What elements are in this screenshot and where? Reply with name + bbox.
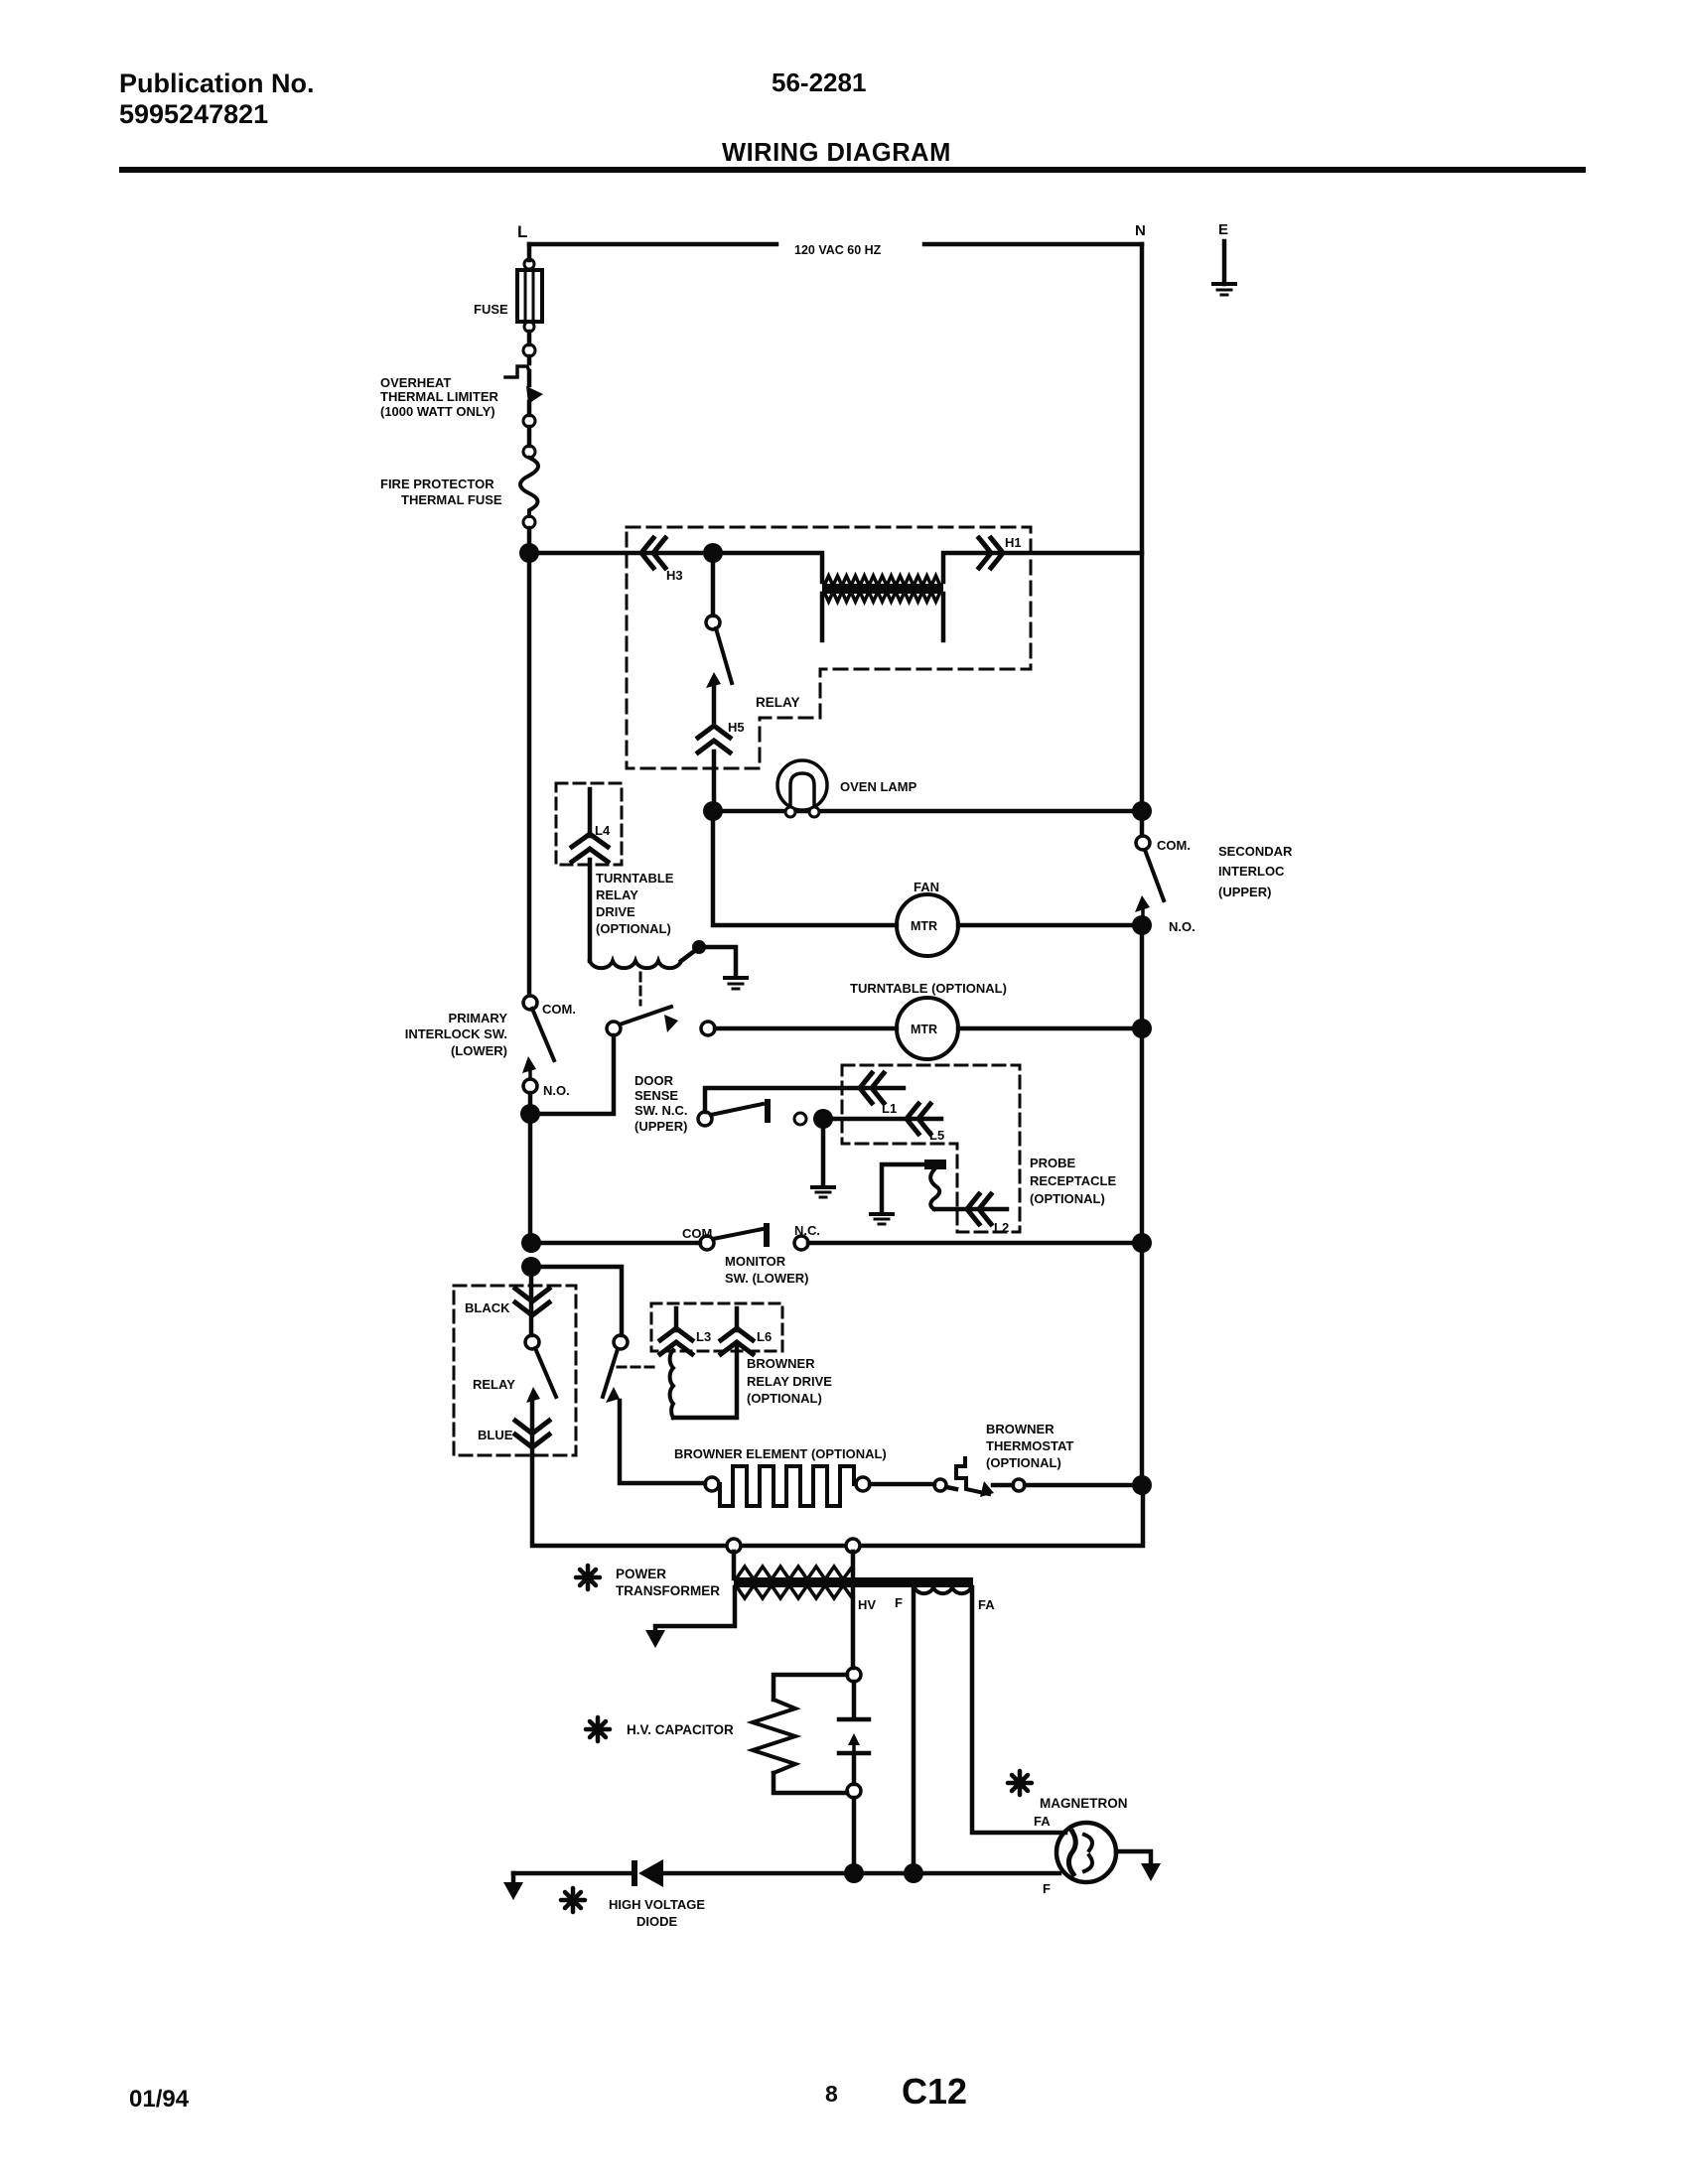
terminal circle	[523, 516, 535, 528]
wire 120VAC label to N	[924, 242, 1142, 247]
svg-text:THERMOSTAT: THERMOSTAT	[986, 1438, 1073, 1453]
contact H5	[698, 726, 730, 738]
svg-text:L3: L3	[696, 1329, 711, 1344]
ground probe	[871, 1212, 893, 1216]
svg-text:N.O.: N.O.	[543, 1083, 570, 1098]
junction dot browner row right	[1132, 1475, 1152, 1495]
svg-text:L6: L6	[757, 1329, 772, 1344]
terminal circle primary right	[846, 1539, 860, 1553]
overheat thermal limiter switch	[527, 356, 532, 363]
ground arrow left	[511, 1873, 516, 1881]
svg-text:FIRE PROTECTOR: FIRE PROTECTOR	[380, 477, 494, 491]
svg-text:FUSE: FUSE	[474, 302, 508, 317]
contact L1	[860, 1073, 872, 1103]
magnetron	[1056, 1823, 1116, 1882]
contact L5	[907, 1104, 918, 1134]
terminal circle	[523, 344, 535, 356]
svg-text:L: L	[517, 222, 527, 241]
star marker H.V. capacitor	[586, 1717, 610, 1741]
fire protector thermal fuse coil	[520, 458, 538, 516]
contact L3	[674, 1308, 679, 1330]
wire element to H1	[943, 553, 1142, 582]
wire coil to L6	[673, 1346, 737, 1418]
svg-text:FAN: FAN	[914, 880, 939, 894]
svg-text:SECONDAR: SECONDAR	[1218, 844, 1293, 859]
wire fuse to limiter	[527, 332, 532, 344]
heating element terminal stubs	[822, 594, 943, 640]
contact L6	[735, 1308, 740, 1330]
wire L to 120VAC label	[529, 242, 776, 247]
svg-text:WIRING DIAGRAM: WIRING DIAGRAM	[722, 139, 951, 167]
svg-text:RELAY: RELAY	[596, 887, 638, 902]
wire turntable switch to motor	[715, 1026, 897, 1031]
svg-text:TURNTABLE: TURNTABLE	[596, 871, 674, 886]
bottom rail to transformer	[532, 1455, 1143, 1546]
svg-text:HV: HV	[858, 1597, 876, 1612]
svg-text:DOOR: DOOR	[634, 1073, 674, 1088]
label BROWNER THERMOSTAT (OPTIONAL)	[986, 1422, 1073, 1470]
svg-text:(1000 WATT ONLY): (1000 WATT ONLY)	[380, 404, 495, 419]
ground turntable relay	[725, 976, 747, 980]
svg-text:RELAY: RELAY	[756, 695, 800, 710]
svg-text:F: F	[895, 1595, 903, 1610]
svg-text:SENSE: SENSE	[634, 1088, 678, 1103]
terminal circle primary left	[727, 1539, 741, 1553]
browner element	[705, 1477, 719, 1491]
wire monitor to N rail	[808, 1241, 1142, 1246]
svg-text:BROWNER ELEMENT (OPTIONAL): BROWNER ELEMENT (OPTIONAL)	[674, 1446, 887, 1461]
wire probe block to ground	[882, 1164, 924, 1211]
svg-text:01/94: 01/94	[129, 2086, 190, 2113]
svg-text:HIGH VOLTAGE: HIGH VOLTAGE	[609, 1897, 705, 1912]
svg-text:F: F	[1043, 1881, 1051, 1896]
ground E earth symbol	[1213, 282, 1235, 286]
junction dot lamp row left	[703, 801, 723, 821]
svg-text:H5: H5	[728, 720, 745, 735]
label POWER TRANSFORMER	[616, 1567, 720, 1598]
junction node relay row	[703, 543, 723, 563]
svg-text:MONITOR: MONITOR	[725, 1254, 786, 1269]
turntable relay drive coil	[590, 961, 681, 968]
turntable switch	[607, 1022, 621, 1035]
svg-text:RELAY DRIVE: RELAY DRIVE	[747, 1374, 832, 1389]
star marker high voltage diode	[561, 1888, 585, 1912]
wire HV down to capacitor node	[851, 1587, 856, 1668]
browner drive switch arm	[614, 1335, 628, 1349]
bleed resistor	[774, 1675, 847, 1700]
svg-text:H1: H1	[1005, 535, 1022, 550]
wire thermostat to N rail	[1025, 1483, 1142, 1488]
junction dot HV rail	[844, 1863, 864, 1883]
svg-text:H3: H3	[666, 568, 683, 583]
svg-text:PRIMARY: PRIMARY	[449, 1011, 508, 1025]
svg-text:INTERLOC: INTERLOC	[1218, 864, 1285, 879]
svg-text:FA: FA	[978, 1597, 995, 1612]
junction dot door sense	[813, 1109, 833, 1129]
label PRIMARY INTERLOCK SW. (LOWER)	[405, 1011, 508, 1058]
svg-text:COM.: COM.	[542, 1002, 576, 1017]
power transformer primary winding	[734, 1552, 853, 1578]
svg-text:MAGNETRON: MAGNETRON	[1040, 1796, 1128, 1811]
publication number heading	[119, 68, 315, 129]
svg-text:SW. N.C.: SW. N.C.	[634, 1103, 687, 1118]
svg-text:OVEN LAMP: OVEN LAMP	[840, 779, 917, 794]
browner relay drive coil	[670, 1350, 673, 1418]
wire L vertical into fuse	[527, 244, 532, 260]
terminal circle	[523, 415, 535, 427]
svg-text:THERMAL LIMITER: THERMAL LIMITER	[380, 389, 499, 404]
svg-text:(OPTIONAL): (OPTIONAL)	[747, 1391, 822, 1406]
svg-text:SW. (LOWER): SW. (LOWER)	[725, 1271, 809, 1286]
contact L4 dashed enclosure	[556, 783, 622, 865]
junction dot F rail	[904, 1863, 923, 1883]
svg-text:MTR: MTR	[911, 919, 937, 933]
secondary interlock switch (upper)	[1136, 836, 1150, 850]
junction dot lamp row right	[1132, 801, 1152, 821]
svg-text:(LOWER): (LOWER)	[451, 1043, 507, 1058]
svg-text:DIODE: DIODE	[636, 1914, 678, 1929]
title rule	[119, 167, 1586, 173]
high voltage diode	[632, 1860, 637, 1886]
svg-text:FA: FA	[1034, 1814, 1051, 1829]
label MONITOR SW. (LOWER)	[725, 1254, 809, 1286]
power transformer filament winding FA	[914, 1587, 971, 1593]
star marker power transformer	[576, 1566, 600, 1589]
junction dot browner feed	[521, 1257, 541, 1277]
door sense switch (upper)	[698, 1112, 712, 1126]
wire junction to ground	[821, 1127, 826, 1184]
svg-text:PROBE: PROBE	[1030, 1156, 1076, 1170]
svg-text:(OPTIONAL): (OPTIONAL)	[596, 921, 671, 936]
svg-text:H.V. CAPACITOR: H.V. CAPACITOR	[627, 1722, 734, 1737]
svg-text:L1: L1	[882, 1101, 897, 1116]
junction dot turntable row right	[1132, 1019, 1152, 1038]
browner relay switch arm (black)	[525, 1335, 539, 1349]
svg-text:C12: C12	[902, 2071, 967, 2112]
svg-text:OVERHEAT: OVERHEAT	[380, 375, 451, 390]
svg-text:56-2281: 56-2281	[772, 68, 866, 97]
browner thermostat	[934, 1479, 946, 1491]
svg-text:BLUE: BLUE	[478, 1428, 513, 1442]
label PROBE RECEPTACLE (OPTIONAL)	[1030, 1156, 1116, 1206]
svg-text:(UPPER): (UPPER)	[634, 1119, 687, 1134]
svg-text:Publication No.: Publication No.	[119, 68, 315, 98]
contact L2	[967, 1194, 979, 1224]
label TURNTABLE RELAY DRIVE (OPTIONAL)	[596, 871, 674, 936]
wire turntable motor to N rail	[958, 1026, 1142, 1031]
svg-text:8: 8	[825, 2081, 838, 2107]
monitor switch blade	[713, 1229, 763, 1239]
label OVERHEAT THERMAL LIMITER (1000 WATT ONLY)	[380, 375, 499, 419]
svg-text:MTR: MTR	[911, 1023, 937, 1036]
star marker magnetron	[1008, 1771, 1032, 1795]
svg-text:DRIVE: DRIVE	[596, 904, 635, 919]
contact BLUE	[530, 1400, 535, 1455]
wire left rail to monitor row	[528, 1114, 533, 1243]
svg-text:INTERLOCK SW.: INTERLOCK SW.	[405, 1026, 507, 1041]
wire element to thermostat	[870, 1482, 934, 1487]
contact BLACK	[529, 1267, 534, 1335]
relay switch arm	[711, 553, 716, 615]
turntable motor MTR	[897, 998, 958, 1059]
wire relay row left	[529, 551, 701, 556]
label FIRE PROTECTOR THERMAL FUSE	[380, 477, 502, 507]
svg-text:POWER: POWER	[616, 1567, 666, 1581]
wire coil to ground	[681, 949, 697, 961]
svg-text:N: N	[1135, 222, 1146, 239]
svg-text:BLACK: BLACK	[465, 1300, 510, 1315]
oven lamp	[777, 760, 827, 810]
monitor switch row	[521, 1233, 541, 1253]
transformer chassis ground	[655, 1587, 735, 1629]
fan motor MTR	[897, 894, 958, 956]
primary interlock switch (lower)	[523, 996, 537, 1010]
svg-text:L4: L4	[595, 823, 611, 838]
wire to L5	[823, 1117, 941, 1122]
svg-text:L5: L5	[929, 1128, 944, 1143]
label HIGH VOLTAGE DIODE	[609, 1897, 705, 1929]
browner relay dashed enclosure	[454, 1286, 576, 1455]
high voltage diode rail	[513, 1871, 1059, 1876]
door sense blade	[711, 1104, 763, 1115]
svg-text:(OPTIONAL): (OPTIONAL)	[986, 1455, 1061, 1470]
svg-text:5995247821: 5995247821	[119, 99, 268, 129]
svg-text:N.O.: N.O.	[1169, 919, 1196, 934]
svg-text:L2: L2	[994, 1220, 1009, 1235]
label SECONDARY INTERLOCK (UPPER)	[1218, 844, 1293, 899]
wire oven lamp row	[713, 809, 1142, 814]
contact H1	[991, 538, 1003, 568]
wire left rail down to primary interlock	[527, 553, 532, 996]
fuse FUSE body	[524, 259, 534, 269]
magnetron anode to ground	[1116, 1851, 1151, 1862]
wire to heating element	[713, 553, 822, 582]
svg-text:BROWNER: BROWNER	[747, 1356, 815, 1371]
heating element (relay box heater)	[822, 584, 943, 594]
mechanical link browner relay (dashed)	[618, 1366, 657, 1369]
svg-text:COM: COM	[682, 1226, 712, 1241]
terminal circle	[523, 446, 535, 458]
H.V. capacitor	[852, 1682, 857, 1717]
wire FA filament to magnetron	[972, 1587, 1065, 1833]
svg-text:(OPTIONAL): (OPTIONAL)	[1030, 1191, 1105, 1206]
relay assembly dashed enclosure	[627, 527, 1031, 768]
probe receptacle dashed enclosure	[842, 1065, 1020, 1232]
probe thermistor squiggle	[930, 1169, 939, 1209]
mechanical link relay coil to switch (dashed)	[639, 973, 642, 1005]
svg-text:COM.: COM.	[1157, 838, 1191, 853]
svg-text:THERMAL FUSE: THERMAL FUSE	[401, 492, 502, 507]
contacts L3 L6 dashed enclosure	[651, 1303, 782, 1351]
probe receptacle contact block	[924, 1160, 946, 1169]
wire N vertical rail	[1140, 244, 1145, 837]
wire H5 to lamp row	[712, 751, 717, 811]
contact L4	[588, 789, 593, 836]
wire to L2	[934, 1207, 1007, 1212]
svg-text:120 VAC 60 HZ: 120 VAC 60 HZ	[794, 243, 882, 257]
wire junction to turntable switch pivot	[530, 1035, 614, 1114]
svg-text:(UPPER): (UPPER)	[1218, 885, 1271, 899]
label BROWNER RELAY DRIVE (OPTIONAL)	[747, 1356, 832, 1406]
wire fan to N rail	[958, 923, 1133, 928]
ground door sense	[812, 1185, 834, 1189]
svg-text:TRANSFORMER: TRANSFORMER	[616, 1583, 720, 1598]
svg-text:TURNTABLE (OPTIONAL): TURNTABLE (OPTIONAL)	[850, 981, 1007, 996]
label DOOR SENSE SW. N.C. (UPPER)	[634, 1073, 687, 1134]
wire F filament	[912, 1587, 916, 1864]
svg-text:RECEPTACLE: RECEPTACLE	[1030, 1173, 1116, 1188]
wire E lead	[1222, 241, 1227, 284]
fan motor branch wire	[713, 811, 897, 925]
svg-text:N.C.: N.C.	[794, 1223, 820, 1238]
contact H3	[641, 538, 653, 568]
junction dot below N.O.	[528, 1093, 533, 1114]
wire to browner relay switch	[531, 1267, 622, 1335]
wire capacitor to HV diode rail	[852, 1798, 857, 1864]
junction dot L rail / relay row	[527, 528, 532, 553]
svg-text:E: E	[1218, 221, 1228, 238]
wire L4 to relay coil	[588, 860, 593, 961]
wire	[527, 427, 532, 446]
svg-text:RELAY: RELAY	[473, 1377, 515, 1392]
svg-text:BROWNER: BROWNER	[986, 1422, 1055, 1436]
